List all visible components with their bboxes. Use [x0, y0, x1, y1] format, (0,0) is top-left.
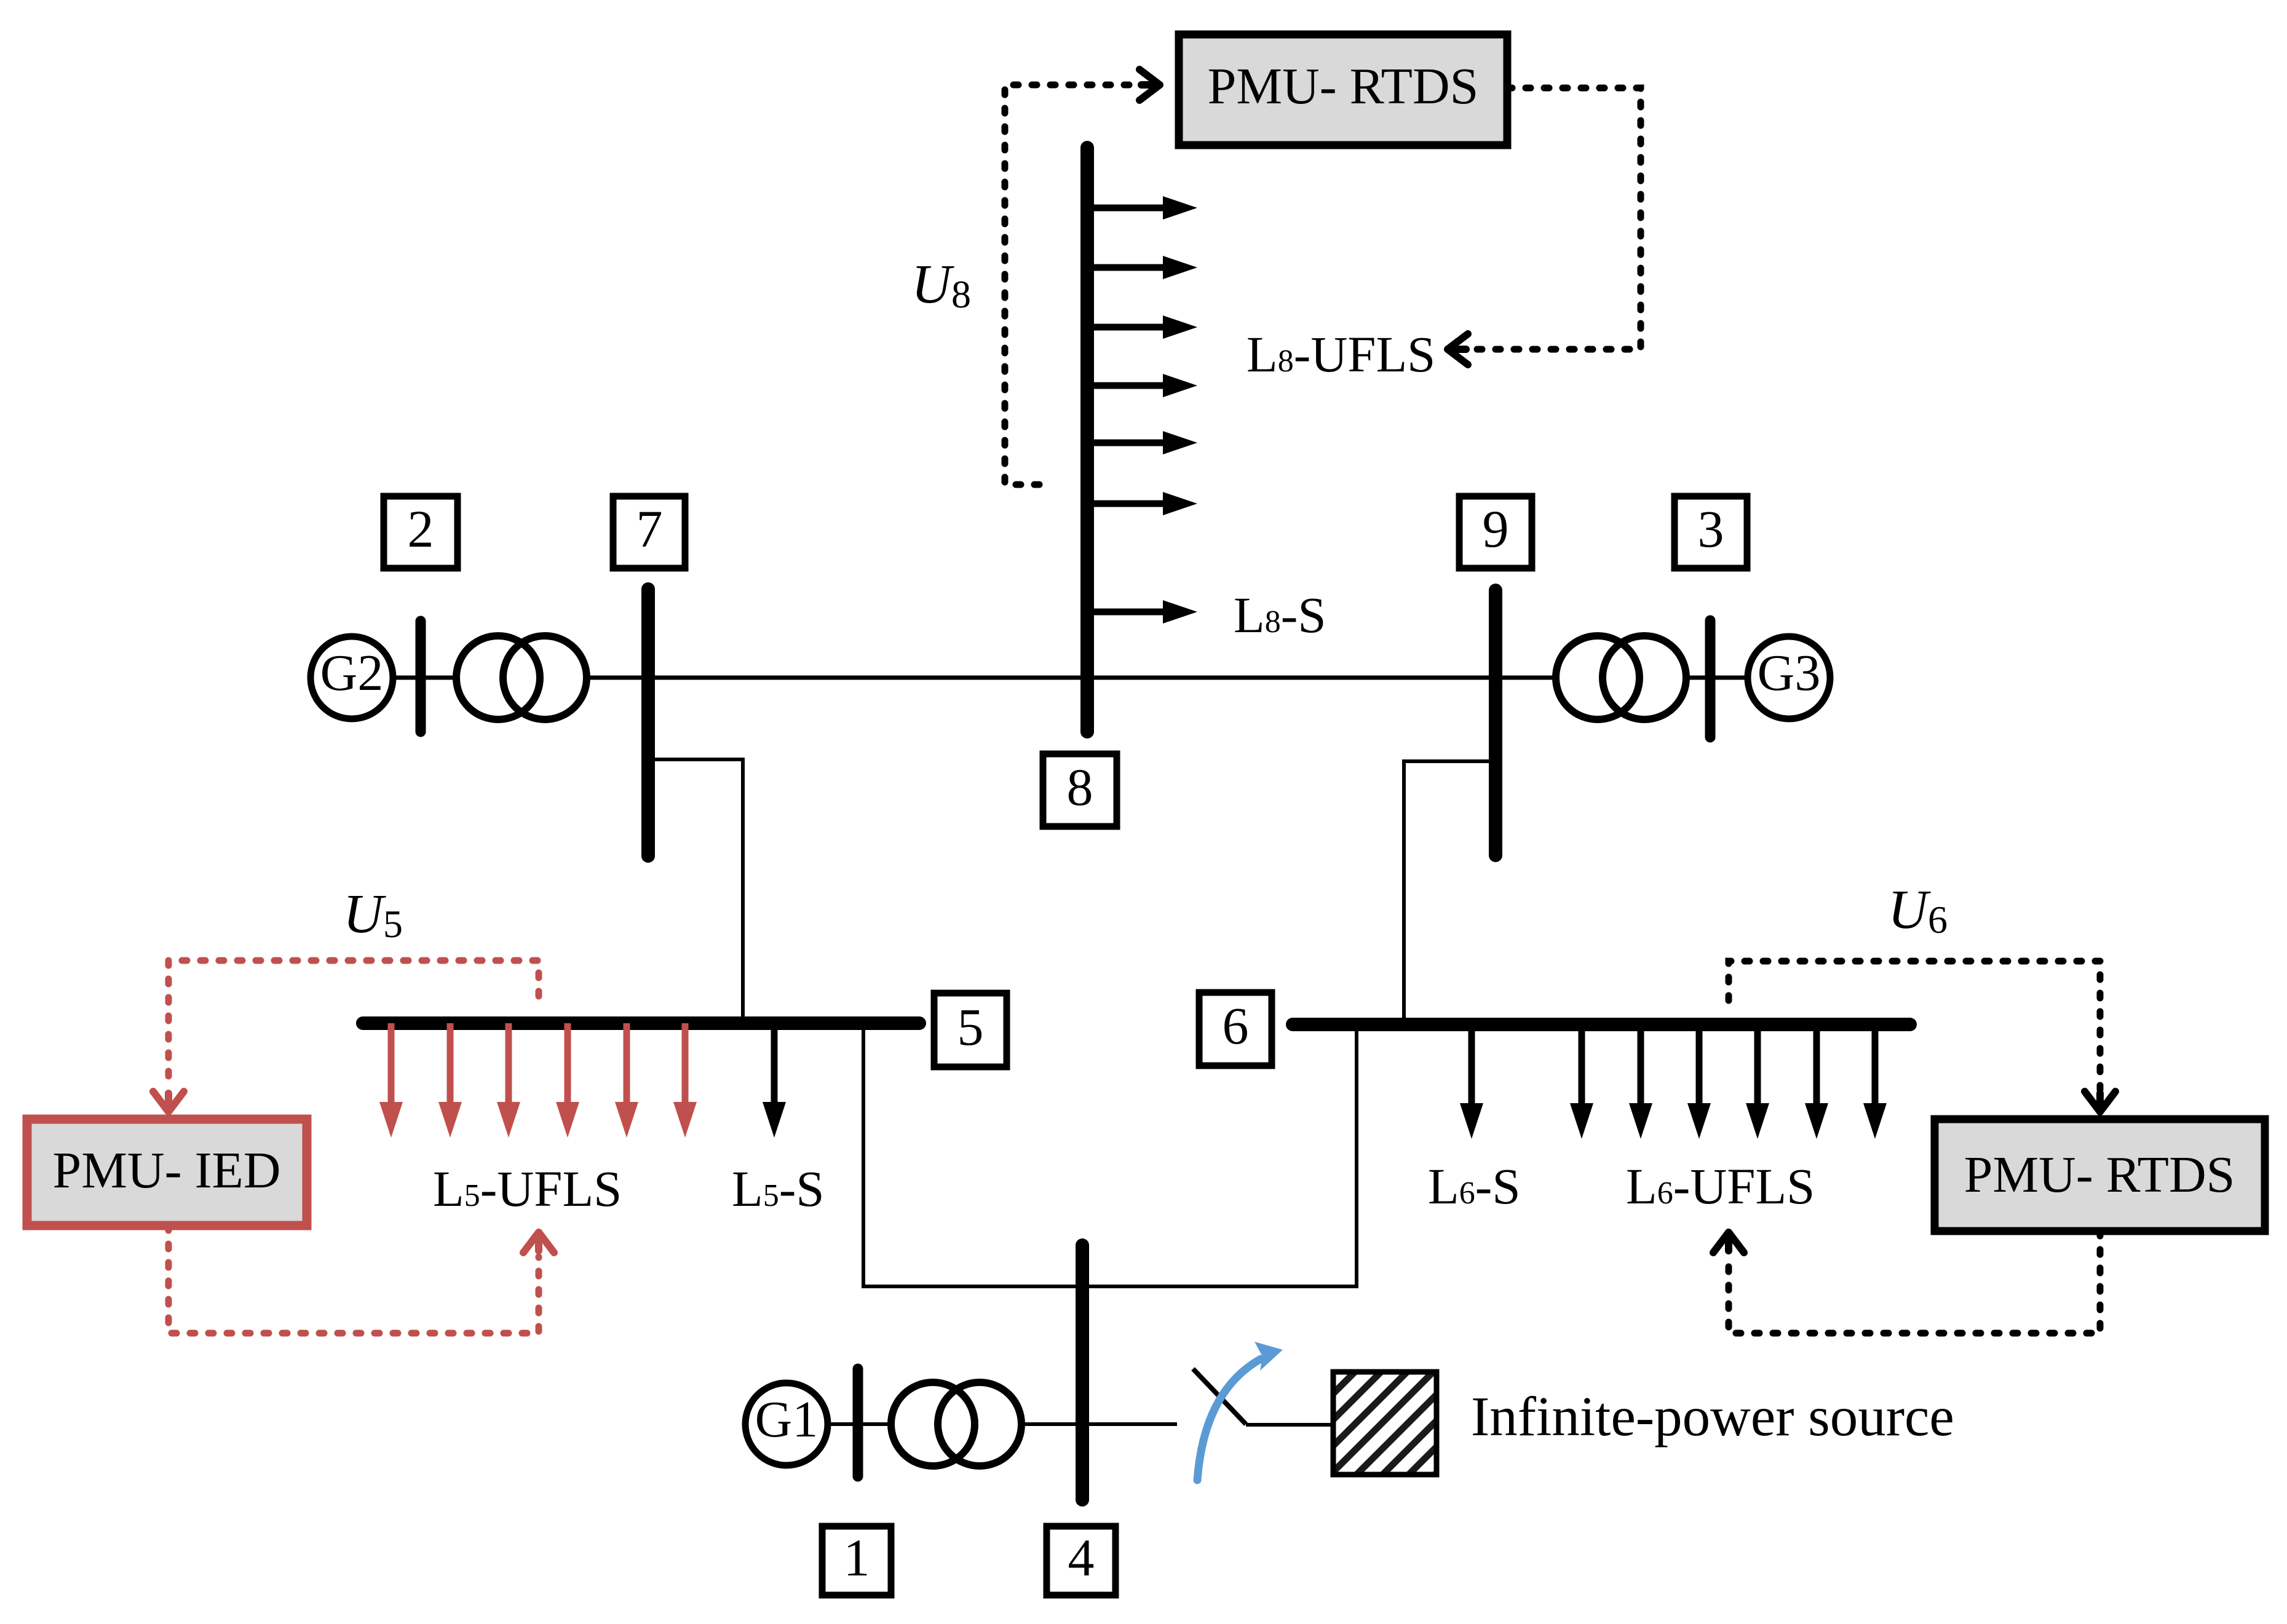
load arrow L8-S on bus 8: [1087, 600, 1197, 624]
wire: switch to infinite source box: [1246, 1423, 1333, 1427]
bus bar 2: [416, 621, 426, 732]
bus 4: [1076, 1245, 1089, 1500]
wire: bus5 to bus4 to bus6: [863, 1023, 1357, 1286]
dashed link U6: bus6 to PMU-RTDS right: [1729, 961, 2100, 1090]
dashed link PMU-IED to L5-UFLS (red): [168, 1226, 539, 1333]
svg-text:L8-UFLS: L8-UFLS: [1247, 326, 1435, 382]
PMU-IED box: [27, 1119, 307, 1226]
PMU-RTDS box top: [1179, 34, 1507, 145]
red load arrows L5-UFLS on bus 5: [379, 1023, 403, 1138]
node label square 2: [384, 496, 458, 568]
svg-text:6: 6: [1223, 996, 1249, 1055]
svg-text:L6-UFLS: L6-UFLS: [1626, 1158, 1815, 1214]
svg-text:9: 9: [1483, 499, 1509, 558]
PMU-RTDS box right: [1935, 1119, 2265, 1231]
bus bar 3: [1705, 620, 1716, 737]
transformer T1: [891, 1382, 975, 1466]
svg-text:Infinite-power source: Infinite-power source: [1471, 1385, 1954, 1448]
svg-text:PMU- IED: PMU- IED: [53, 1142, 281, 1199]
black load arrows L6-UFLS on bus 6: [1570, 1024, 1593, 1139]
node label square 7: [613, 496, 685, 568]
wire: main tie line G2-7-8-9-G3: [391, 676, 1748, 680]
node label square 8: [1043, 754, 1117, 826]
infinite power source box (hatched): [1333, 1372, 1437, 1475]
wire: bus4 to switch contact: [1082, 1422, 1177, 1426]
svg-text:2: 2: [408, 499, 434, 558]
load arrows L8-UFLS on bus 8: [1087, 196, 1197, 220]
svg-text:G1: G1: [755, 1391, 818, 1448]
arrowhead into L5-UFLS: [523, 1232, 554, 1253]
arrowhead into L8-UFLS: [1448, 334, 1468, 365]
node label square 3: [1675, 496, 1747, 568]
svg-text:7: 7: [636, 499, 663, 558]
dashed link PMU-RTDS right to L6-UFLS: [1729, 1231, 2100, 1333]
wire: bus9 to bus6: [1404, 761, 1496, 1024]
svg-text:PMU- RTDS: PMU- RTDS: [1208, 58, 1479, 115]
node label square 6: [1199, 992, 1272, 1066]
generator G2: [311, 636, 393, 719]
svg-text:PMU- RTDS: PMU- RTDS: [1964, 1146, 2235, 1203]
node label square 4: [1047, 1526, 1116, 1595]
svg-text:8: 8: [1067, 758, 1093, 817]
bus 7: [641, 589, 655, 856]
dashed link U8: bus8 to PMU-RTDS: [1005, 85, 1135, 485]
blue breaker-opening arrow: [1197, 1359, 1261, 1480]
transformer T3: [1556, 636, 1639, 719]
svg-text:1: 1: [844, 1528, 870, 1587]
bus 8: [1080, 148, 1094, 732]
node label square 5: [934, 993, 1007, 1067]
node label square 9: [1459, 496, 1532, 568]
switch blade: [1193, 1369, 1246, 1424]
black load arrow L5-S on bus 5: [763, 1023, 786, 1138]
svg-text:5: 5: [957, 997, 984, 1056]
dashed link U5: bus5 to PMU-IED (red): [168, 961, 539, 1090]
arrowhead into PMU-IED: [153, 1091, 184, 1112]
arrowhead into PMU-RTDS right: [2085, 1091, 2115, 1112]
dashed link PMU-RTDS top to L8-UFLS: [1472, 88, 1641, 349]
generator G1: [745, 1383, 828, 1465]
arrowhead into L6-UFLS: [1713, 1232, 1744, 1253]
generator G3: [1748, 636, 1830, 719]
bus 9: [1489, 590, 1502, 855]
arrowhead into PMU-RTDS top: [1140, 69, 1160, 100]
bus bar 1: [853, 1369, 863, 1476]
wire: bus7 to bus5: [648, 759, 743, 1023]
black load arrow L6-S on bus 6: [1460, 1024, 1483, 1139]
svg-text:G3: G3: [1758, 644, 1821, 702]
bus 5: [363, 1016, 919, 1030]
svg-text:L5-UFLS: L5-UFLS: [433, 1160, 622, 1217]
bus 6: [1293, 1018, 1910, 1031]
transformer T2: [456, 636, 540, 719]
wire: G1 to bus4: [828, 1422, 1082, 1426]
svg-text:4: 4: [1068, 1528, 1095, 1587]
svg-text:3: 3: [1698, 499, 1724, 558]
node label square 1: [822, 1526, 891, 1595]
svg-text:G2: G2: [320, 644, 384, 702]
